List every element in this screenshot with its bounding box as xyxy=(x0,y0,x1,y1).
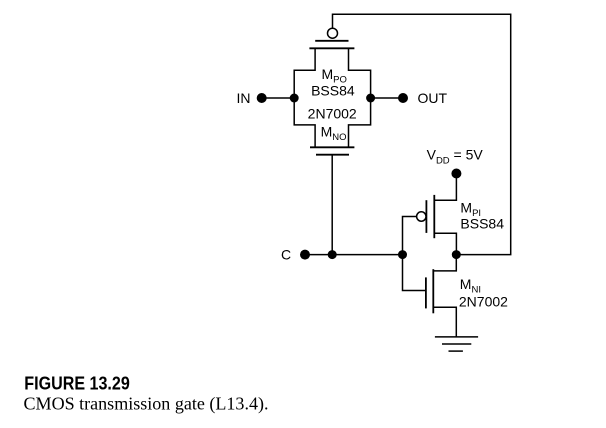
svg-text:BSS84: BSS84 xyxy=(311,82,355,98)
svg-text:C: C xyxy=(281,247,291,263)
svg-text:VDD = 5V: VDD = 5V xyxy=(427,147,484,167)
svg-text:IN: IN xyxy=(237,90,251,106)
svg-text:2N7002: 2N7002 xyxy=(459,293,508,309)
svg-text:CMOS transmission gate (L13.4): CMOS transmission gate (L13.4). xyxy=(24,394,269,415)
svg-text:FIGURE 13.29: FIGURE 13.29 xyxy=(24,373,130,393)
svg-text:OUT: OUT xyxy=(418,90,448,106)
svg-text:MNO: MNO xyxy=(321,124,347,144)
svg-text:2N7002: 2N7002 xyxy=(308,106,357,122)
svg-text:BSS84: BSS84 xyxy=(460,216,504,232)
